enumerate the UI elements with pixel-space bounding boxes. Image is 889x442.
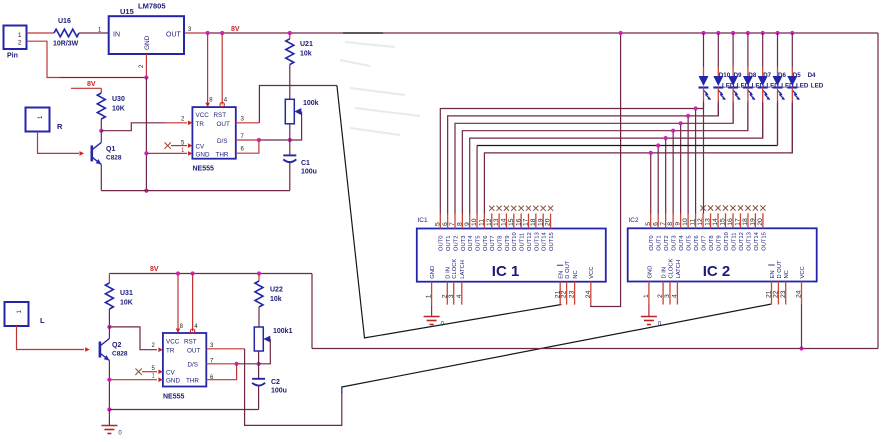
svg-text:RST: RST: [214, 112, 227, 119]
svg-text:1: 1: [643, 294, 650, 298]
svg-text:EN: EN: [559, 271, 565, 279]
svg-text:OUT9: OUT9: [505, 236, 511, 251]
svg-text:U21: U21: [300, 41, 313, 48]
svg-text:8V: 8V: [87, 81, 96, 88]
svg-text:13: 13: [705, 218, 712, 226]
svg-text:NC: NC: [784, 270, 790, 278]
svg-text:7: 7: [660, 222, 667, 226]
svg-text:10: 10: [471, 218, 478, 226]
svg-text:D OUT: D OUT: [565, 260, 571, 278]
svg-text:OUT14: OUT14: [754, 231, 760, 250]
svg-text:RST: RST: [184, 339, 197, 346]
svg-text:8: 8: [456, 222, 463, 226]
svg-text:VCC: VCC: [800, 266, 806, 278]
svg-text:GND: GND: [430, 266, 436, 279]
svg-text:2: 2: [18, 40, 22, 47]
svg-text:CV: CV: [166, 370, 176, 377]
svg-text:10k: 10k: [300, 51, 312, 58]
svg-text:24: 24: [585, 290, 592, 298]
svg-text:GND: GND: [647, 266, 653, 279]
svg-text:GND: GND: [144, 35, 151, 50]
svg-text:10R/3W: 10R/3W: [53, 41, 79, 48]
svg-text:18: 18: [530, 218, 537, 226]
svg-text:Q2: Q2: [112, 342, 121, 349]
svg-text:VCC: VCC: [589, 266, 595, 278]
svg-text:19: 19: [537, 218, 544, 226]
svg-text:U30: U30: [112, 96, 125, 103]
svg-text:24: 24: [796, 290, 803, 298]
svg-text:C828: C828: [112, 351, 128, 358]
svg-text:15: 15: [720, 218, 727, 226]
svg-text:OUT2: OUT2: [453, 236, 459, 251]
svg-text:3: 3: [448, 294, 455, 298]
svg-text:13: 13: [493, 218, 500, 226]
svg-text:16: 16: [727, 218, 734, 226]
svg-text:EN: EN: [770, 270, 776, 278]
svg-text:7: 7: [449, 222, 456, 226]
svg-text:THR: THR: [216, 151, 229, 158]
svg-text:CLOCK: CLOCK: [452, 259, 458, 279]
svg-text:OUT7: OUT7: [701, 235, 707, 250]
svg-text:OUT8: OUT8: [498, 236, 504, 251]
svg-text:100u: 100u: [271, 388, 287, 395]
svg-text:14: 14: [712, 218, 719, 226]
svg-text:R: R: [57, 122, 63, 131]
svg-text:LATCH: LATCH: [460, 260, 466, 279]
svg-text:16: 16: [515, 218, 522, 226]
svg-text:OUT3: OUT3: [461, 236, 467, 251]
svg-text:OUT1: OUT1: [657, 235, 663, 250]
svg-text:9: 9: [464, 222, 471, 226]
svg-text:15: 15: [508, 218, 515, 226]
svg-text:11: 11: [690, 219, 697, 226]
svg-text:Q1: Q1: [106, 146, 115, 153]
svg-text:NC: NC: [573, 270, 579, 278]
svg-text:11: 11: [479, 219, 486, 226]
svg-text:OUT9: OUT9: [716, 235, 722, 250]
svg-text:12: 12: [486, 218, 493, 226]
svg-text:OUT2: OUT2: [664, 235, 670, 250]
svg-text:17: 17: [523, 218, 530, 226]
svg-text:D OUT: D OUT: [777, 260, 783, 278]
svg-text:CLOCK: CLOCK: [668, 258, 674, 278]
svg-text:14: 14: [501, 218, 508, 226]
svg-text:C2: C2: [271, 379, 280, 386]
svg-text:L: L: [40, 316, 45, 325]
svg-text:IC2: IC2: [629, 217, 640, 224]
svg-text:22: 22: [561, 290, 568, 298]
svg-text:12: 12: [697, 218, 704, 226]
svg-text:18: 18: [742, 218, 749, 226]
svg-text:OUT10: OUT10: [512, 232, 518, 251]
svg-text:OUT: OUT: [187, 348, 200, 355]
svg-text:D IN: D IN: [446, 267, 452, 279]
svg-text:D4: D4: [808, 72, 816, 79]
svg-text:OUT12: OUT12: [527, 232, 533, 251]
svg-text:TR: TR: [196, 121, 205, 128]
svg-text:100k1: 100k1: [273, 328, 293, 335]
svg-text:OUT10: OUT10: [724, 232, 730, 251]
svg-text:6: 6: [652, 222, 659, 226]
svg-text:10K: 10K: [120, 300, 133, 307]
svg-text:C1: C1: [301, 160, 310, 167]
svg-text:IC 2: IC 2: [703, 263, 731, 280]
svg-text:LED: LED: [796, 83, 809, 90]
svg-text:100u: 100u: [301, 169, 317, 176]
svg-text:OUT14: OUT14: [542, 232, 548, 251]
svg-text:TR: TR: [166, 348, 175, 355]
svg-text:8: 8: [667, 222, 674, 226]
svg-text:OUT13: OUT13: [534, 232, 540, 251]
svg-text:OUT6: OUT6: [483, 236, 489, 251]
svg-text:IN: IN: [113, 32, 120, 39]
svg-text:OUT0: OUT0: [439, 236, 445, 251]
svg-text:OUT8: OUT8: [709, 235, 715, 250]
svg-text:4: 4: [456, 294, 463, 298]
svg-text:OUT: OUT: [166, 32, 182, 39]
svg-text:GND: GND: [166, 377, 180, 384]
svg-text:19: 19: [750, 218, 757, 226]
svg-text:10: 10: [682, 218, 689, 226]
svg-text:D/S: D/S: [188, 362, 199, 369]
svg-text:OUT12: OUT12: [739, 232, 745, 251]
svg-text:4: 4: [672, 294, 679, 298]
svg-text:23: 23: [569, 290, 576, 298]
svg-text:NE555: NE555: [163, 394, 185, 401]
svg-text:8V: 8V: [150, 266, 159, 273]
svg-text:U15: U15: [120, 7, 134, 16]
svg-text:22: 22: [773, 290, 780, 298]
svg-text:OUT13: OUT13: [746, 232, 752, 251]
svg-text:THR: THR: [186, 377, 199, 384]
svg-text:OUT5: OUT5: [687, 235, 693, 250]
svg-text:5: 5: [645, 222, 652, 226]
svg-text:100k: 100k: [303, 100, 319, 107]
svg-text:OUT: OUT: [217, 121, 230, 128]
svg-text:OUT15: OUT15: [549, 232, 555, 251]
svg-text:9: 9: [675, 222, 682, 226]
svg-text:OUT5: OUT5: [475, 236, 481, 251]
svg-text:NE555: NE555: [193, 166, 215, 173]
svg-text:LATCH: LATCH: [676, 260, 682, 279]
svg-text:U31: U31: [120, 290, 133, 297]
svg-text:3: 3: [664, 294, 671, 298]
svg-text:VCC: VCC: [196, 112, 210, 119]
svg-text:LED: LED: [811, 83, 824, 90]
svg-text:OUT0: OUT0: [649, 235, 655, 250]
svg-text:CV: CV: [196, 144, 206, 151]
svg-text:C828: C828: [106, 155, 122, 162]
svg-text:1: 1: [18, 32, 22, 39]
svg-text:U22: U22: [270, 287, 283, 294]
svg-text:LM7805: LM7805: [138, 2, 166, 11]
svg-text:17: 17: [735, 218, 742, 226]
svg-text:OUT1: OUT1: [446, 236, 452, 251]
svg-text:U16: U16: [58, 18, 71, 25]
svg-text:1: 1: [426, 294, 433, 298]
svg-text:D/S: D/S: [217, 138, 228, 145]
svg-text:OUT11: OUT11: [520, 233, 526, 251]
svg-text:IC 1: IC 1: [492, 263, 520, 280]
svg-text:OUT15: OUT15: [761, 232, 767, 251]
svg-text:OUT3: OUT3: [672, 235, 678, 250]
svg-text:OUT4: OUT4: [679, 235, 685, 251]
svg-text:OUT7: OUT7: [490, 236, 496, 251]
svg-text:10K: 10K: [112, 106, 125, 113]
svg-text:GND: GND: [196, 151, 210, 158]
svg-text:VCC: VCC: [166, 339, 180, 346]
svg-text:8V: 8V: [231, 26, 240, 33]
svg-text:6: 6: [442, 222, 449, 226]
svg-text:OUT4: OUT4: [468, 235, 474, 251]
svg-text:5: 5: [434, 222, 441, 226]
svg-text:D IN: D IN: [662, 267, 668, 279]
svg-text:10k: 10k: [270, 296, 282, 303]
svg-text:OUT6: OUT6: [694, 235, 700, 250]
svg-text:OUT11: OUT11: [731, 233, 737, 251]
svg-text:20: 20: [545, 218, 552, 226]
svg-text:23: 23: [780, 290, 787, 298]
svg-text:IC1: IC1: [418, 217, 429, 224]
svg-text:Pin: Pin: [7, 53, 18, 60]
svg-text:20: 20: [757, 218, 764, 226]
